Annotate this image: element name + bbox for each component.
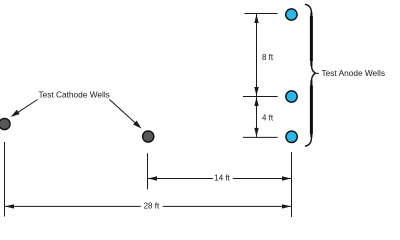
svg-text:14 ft: 14 ft bbox=[214, 174, 230, 183]
svg-text:28 ft: 28 ft bbox=[144, 201, 160, 210]
svg-text:8 ft: 8 ft bbox=[262, 53, 274, 62]
svg-text:Test Anode Wells: Test Anode Wells bbox=[322, 68, 386, 78]
svg-text:4 ft: 4 ft bbox=[262, 114, 274, 123]
svg-text:Test Cathode Wells: Test Cathode Wells bbox=[39, 90, 110, 100]
